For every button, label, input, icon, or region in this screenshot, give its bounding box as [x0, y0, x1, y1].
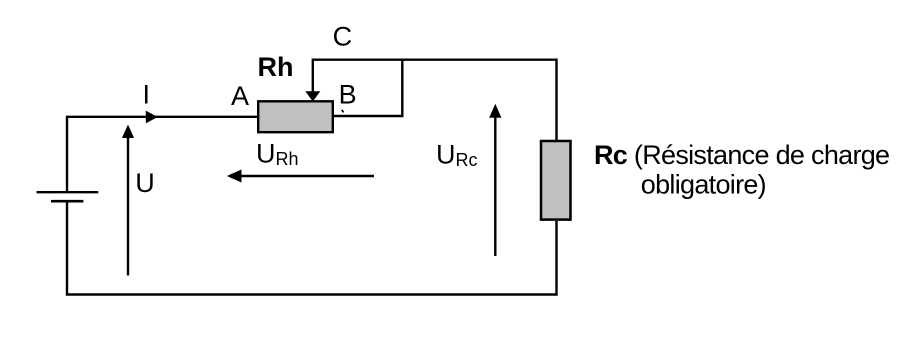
- svg-text:Rc (Résistance de charge: Rc (Résistance de charge: [594, 140, 889, 170]
- svg-text:I: I: [143, 80, 151, 110]
- svg-text:obligatoire): obligatoire): [641, 169, 766, 199]
- svg-text:C: C: [333, 21, 353, 51]
- svg-text:B: B: [339, 80, 357, 110]
- svg-text:U: U: [135, 168, 155, 198]
- svg-text:A: A: [231, 81, 249, 111]
- svg-text:Rh: Rh: [258, 52, 294, 82]
